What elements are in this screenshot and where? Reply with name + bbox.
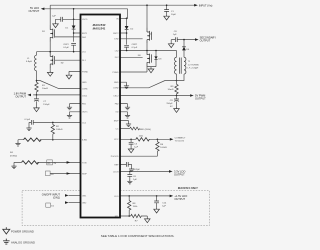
node: LDO/C14 junction bbox=[156, 195, 158, 197]
ground N2 source bbox=[49, 68, 51, 71]
ground C2 bbox=[53, 22, 59, 27]
wire: DH2 gate bbox=[120, 38, 143, 40]
ground C1 bbox=[164, 15, 170, 20]
node: VDD/D2 junction bbox=[126, 18, 128, 20]
svg-text:150µF: 150µF bbox=[43, 104, 50, 106]
node: OUT1 bbox=[36, 94, 38, 96]
wire: CBST2 to LX2 bbox=[126, 47, 128, 50]
ground COUT2 bbox=[174, 107, 180, 112]
svg-text:D2: D2 bbox=[130, 28, 134, 30]
diode D3 (schottky) bbox=[155, 51, 157, 57]
svg-text:10mΩ: 10mΩ bbox=[167, 89, 173, 91]
transistor N4 (low-side, SMPS2) bbox=[146, 50, 148, 52]
wire: LDO3 output row bbox=[120, 170, 169, 172]
wire: 5V LDO output line bbox=[44, 9, 127, 19]
ground C14 bbox=[154, 208, 160, 213]
wire: CBST1 to LX1 bbox=[73, 45, 75, 52]
wire: OUT1 row (CSL1) bbox=[33, 94, 80, 96]
svg-text:R9: R9 bbox=[171, 86, 175, 88]
transformer T1 secondary bbox=[184, 57, 186, 74]
svg-text:0.1µF: 0.1µF bbox=[132, 47, 138, 49]
resistor R7 bbox=[131, 214, 142, 217]
wire: VIN rail bbox=[50, 5, 195, 28]
svg-text:D1: D1 bbox=[65, 28, 69, 30]
svg-text:T1: T1 bbox=[188, 61, 191, 63]
svg-text:CBST2: CBST2 bbox=[132, 44, 138, 46]
capacitor C3 bbox=[130, 139, 132, 142]
ground N4 bbox=[148, 67, 154, 72]
node: BST2 junction bbox=[126, 32, 128, 34]
svg-text:1µF: 1µF bbox=[133, 179, 137, 181]
node: FBL/R8 junction bbox=[128, 215, 130, 217]
diode D2 (boost) bbox=[126, 18, 128, 26]
ground FB2 bbox=[125, 105, 130, 109]
arrow: 5V output bbox=[190, 94, 194, 97]
svg-text:49.9kΩ: 49.9kΩ bbox=[10, 155, 17, 157]
capacitor C6 bbox=[129, 171, 131, 174]
wire: REF pin bbox=[120, 164, 132, 167]
svg-text:100kΩ: 100kΩ bbox=[56, 129, 63, 131]
wire: secondary output row bbox=[171, 40, 195, 47]
svg-text:4V: 4V bbox=[170, 106, 173, 108]
arrow into TON pin bbox=[67, 161, 71, 164]
ground PGND1 bbox=[66, 74, 72, 79]
resistor R10 on CC bbox=[130, 127, 140, 130]
wire: OUT1 pin to ground bbox=[70, 112, 81, 114]
svg-text:N4: N4 bbox=[138, 55, 142, 57]
wire: CSL2 / OUT2 row bbox=[120, 95, 190, 97]
svg-text:C7: C7 bbox=[43, 101, 47, 103]
transformer T1 core bbox=[180, 58, 182, 74]
wire/flag: SKIP row bbox=[50, 173, 81, 175]
svg-text:CSL1: CSL1 bbox=[82, 95, 88, 97]
svg-text:(ON1): (ON1) bbox=[53, 195, 60, 199]
node: VCC junctions bbox=[130, 139, 132, 141]
capacitor CBST1 bbox=[71, 43, 76, 45]
wire: LDO5 pin to bypass cap bbox=[56, 19, 81, 22]
arrow/wire: ON2 bbox=[65, 201, 69, 204]
svg-text:C1: C1 bbox=[171, 11, 175, 13]
MAX1541-only dashed enclosure bbox=[22, 191, 209, 226]
wire: LDO output row bbox=[120, 195, 170, 197]
wire: CSH2 sense (diagonal) bbox=[120, 81, 177, 88]
svg-text:R1: R1 bbox=[42, 85, 46, 87]
svg-text:GND: GND bbox=[114, 82, 119, 84]
wire: GND pin bbox=[120, 82, 127, 84]
wire: CSH1 sense (diagonal) bbox=[37, 81, 81, 89]
transformer T1 primary bbox=[175, 57, 177, 74]
svg-text:ANALOG GROUND: ANALOG GROUND bbox=[11, 241, 35, 245]
capacitor C8 bbox=[175, 37, 177, 42]
svg-text:20Ω: 20Ω bbox=[139, 136, 143, 138]
svg-text:SKIP: SKIP bbox=[82, 173, 87, 175]
svg-text:D3: D3 bbox=[159, 59, 163, 61]
svg-text:INPUT (VIN): INPUT (VIN) bbox=[199, 3, 213, 7]
flag: REF box on TON row bbox=[47, 160, 53, 165]
wire: coil bottoms to sense node bbox=[177, 74, 185, 80]
wire: VCC row bbox=[120, 138, 170, 140]
svg-text:CONNECT: CONNECT bbox=[175, 138, 186, 140]
svg-text:L1: L1 bbox=[27, 58, 30, 60]
node: LDO3/C5 junction bbox=[129, 171, 131, 173]
legend: analog ground bbox=[3, 239, 10, 245]
svg-text:1:2 TURNS: 1:2 TURNS bbox=[188, 64, 200, 66]
capacitor C4 REF bbox=[126, 162, 128, 167]
capacitor C14 bbox=[156, 196, 158, 201]
svg-text:150µF: 150µF bbox=[166, 103, 173, 105]
resistor R6 pullup bbox=[156, 139, 158, 141]
svg-text:1µF: 1µF bbox=[162, 206, 166, 208]
svg-text:REF: REF bbox=[114, 164, 119, 166]
node: ILIM1 junction bbox=[52, 139, 54, 141]
svg-text:C9: C9 bbox=[170, 100, 174, 102]
svg-text:N2: N2 bbox=[61, 62, 65, 64]
svg-text:10µF: 10µF bbox=[171, 14, 177, 16]
svg-text:OUTPUT: OUTPUT bbox=[195, 97, 206, 101]
svg-text:CC: CC bbox=[115, 128, 119, 130]
ground OD bbox=[125, 114, 130, 118]
svg-text:OUTPUT: OUTPUT bbox=[174, 197, 185, 201]
arrow: 5V LDO output bbox=[41, 8, 45, 11]
svg-text:POWER GROUND: POWER GROUND bbox=[11, 230, 34, 234]
ground R7 bbox=[145, 217, 151, 222]
transistor N2 (low-side, SMPS1) bbox=[50, 52, 54, 68]
svg-text:2V: 2V bbox=[54, 163, 57, 165]
svg-text:VCC: VCC bbox=[114, 139, 119, 141]
svg-text:D0: D0 bbox=[51, 174, 55, 176]
ground R4 bbox=[11, 164, 16, 168]
svg-text:10mΩ: 10mΩ bbox=[42, 88, 48, 90]
node: secondary out bbox=[183, 39, 185, 41]
flag/label: ON2 bbox=[46, 203, 51, 207]
wire: LX1 node bbox=[37, 41, 81, 51]
svg-text:LP = 6.8µH: LP = 6.8µH bbox=[188, 68, 199, 70]
ground COUT1 bbox=[34, 106, 40, 111]
wire: DH1 gate bbox=[55, 36, 81, 38]
wire: LX2 row bbox=[120, 44, 177, 58]
svg-text:1µF: 1µF bbox=[52, 15, 56, 17]
wire: CC pin bbox=[120, 128, 130, 130]
svg-text:OUTPUT: OUTPUT bbox=[200, 39, 211, 43]
diode D4 (secondary rectifier) bbox=[183, 50, 185, 57]
diode D1 bbox=[73, 19, 75, 25]
svg-text:BST1: BST1 bbox=[82, 33, 88, 35]
legend: power ground bbox=[3, 227, 10, 234]
svg-text:1µF: 1µF bbox=[173, 34, 177, 36]
capacitor COUT2 bbox=[176, 96, 178, 100]
svg-text:1µF: 1µF bbox=[134, 147, 138, 149]
svg-text:REF (200k): REF (200k) bbox=[140, 129, 151, 131]
ground FB1 bbox=[67, 105, 72, 109]
svg-text:PGND: PGND bbox=[82, 71, 89, 73]
arrow: input terminal bbox=[194, 4, 198, 7]
svg-text:6.8µH: 6.8µH bbox=[26, 61, 32, 63]
wire: N4 source node bbox=[147, 66, 156, 67]
wire: OD pin to ground bbox=[120, 112, 128, 114]
svg-text:C3: C3 bbox=[134, 144, 138, 146]
wire: D2 to BST2 bbox=[120, 30, 127, 45]
resistor R3 bbox=[24, 138, 42, 141]
svg-text:C14: C14 bbox=[162, 203, 167, 205]
ground SKIP2 bbox=[126, 122, 131, 126]
wire: L1 to sense node bbox=[36, 71, 38, 82]
capacitor CBST2 bbox=[124, 45, 129, 47]
svg-text:N1: N1 bbox=[42, 31, 46, 33]
svg-text:BST2: BST2 bbox=[113, 33, 119, 35]
ground C6 bbox=[127, 180, 132, 184]
svg-text:CBST1: CBST1 bbox=[63, 44, 69, 46]
transistor N3 (high-side, SMPS2) bbox=[147, 28, 151, 44]
svg-text:ILIM1: ILIM1 bbox=[82, 140, 88, 142]
svg-text:D4: D4 bbox=[186, 49, 190, 51]
node: LDO5 pin junction bbox=[73, 19, 75, 21]
arrow: 3.3V LDO output bbox=[169, 170, 173, 173]
ground R3 bbox=[15, 142, 20, 146]
svg-text:GND: GND bbox=[82, 82, 87, 84]
svg-text:CSH1: CSH1 bbox=[82, 88, 88, 90]
capacitor C5 row bbox=[29, 122, 81, 126]
node: bias rail tap bbox=[73, 8, 75, 10]
capacitor C1 bbox=[164, 10, 169, 12]
node: VIN/C1 junction bbox=[166, 4, 168, 6]
svg-text:MAX1541 ONLY: MAX1541 ONLY bbox=[178, 186, 198, 190]
ground C4 bbox=[129, 167, 134, 171]
svg-text:R7: R7 bbox=[135, 221, 139, 223]
resistor RCS2 bbox=[176, 81, 178, 85]
ground GND pin bbox=[124, 84, 129, 88]
capacitor C2 1uF bbox=[61, 17, 63, 22]
svg-text:MAX1541: MAX1541 bbox=[93, 27, 106, 31]
inductor L1 bbox=[36, 52, 38, 56]
wire: DL2 gate bbox=[120, 56, 143, 58]
node: sense top bbox=[36, 80, 38, 82]
svg-text:SKIP: SKIP bbox=[114, 120, 119, 122]
node: OUT2 bbox=[176, 95, 178, 97]
svg-text:R2: R2 bbox=[56, 126, 60, 128]
node: LDO/R8 junction bbox=[128, 195, 130, 197]
svg-text:OD: OD bbox=[115, 112, 119, 114]
node: sense2 top bbox=[176, 80, 178, 82]
svg-text:OUT1: OUT1 bbox=[82, 112, 88, 114]
svg-text:D1: D1 bbox=[51, 206, 55, 208]
resistor RCS1 bbox=[36, 81, 38, 83]
svg-text:OUTPUT: OUTPUT bbox=[15, 94, 26, 98]
svg-text:C6: C6 bbox=[133, 176, 137, 178]
svg-text:C8: C8 bbox=[174, 31, 178, 33]
resistor R8 bbox=[128, 196, 130, 201]
wire: PGOOD row bbox=[120, 155, 157, 157]
arrow: 1.8V output bbox=[27, 94, 31, 97]
resistor R2 bbox=[52, 122, 54, 124]
capacitor COUT1 bbox=[36, 95, 38, 99]
node: CC1 junction bbox=[52, 122, 54, 124]
wire: VDD pin row bbox=[120, 17, 127, 19]
arrow: connect to LDO5 bbox=[170, 138, 174, 141]
svg-text:LDO: LDO bbox=[114, 196, 119, 198]
ground C8 bbox=[168, 42, 174, 47]
arrow: 1.5V LDO output bbox=[170, 195, 174, 198]
node: BST1 junction bbox=[73, 32, 75, 34]
svg-text:OUTPUT: OUTPUT bbox=[29, 9, 40, 13]
ground OUT1 pin bbox=[67, 114, 72, 118]
svg-text:LDO5: LDO5 bbox=[82, 19, 88, 21]
svg-text:R6: R6 bbox=[160, 144, 164, 146]
node: LX2 junctions bbox=[126, 50, 128, 52]
arrow/wire: ON1 bbox=[65, 194, 69, 197]
wire: PGND pin bbox=[120, 67, 147, 73]
wire: DL1 gate bbox=[55, 59, 81, 61]
wire: TON row with R4 to ground bbox=[14, 162, 81, 164]
svg-text:CSH2: CSH2 bbox=[113, 88, 119, 90]
ground C3 bbox=[128, 147, 134, 152]
svg-text:0.22µF: 0.22µF bbox=[134, 169, 141, 171]
svg-text:150k: 150k bbox=[133, 206, 139, 208]
wire: FB1 pin to ground bbox=[70, 104, 81, 106]
svg-text:OUTPUT: OUTPUT bbox=[174, 172, 185, 176]
wire: D1 cathode to BST1 bbox=[74, 29, 81, 42]
svg-text:N3: N3 bbox=[149, 34, 153, 36]
svg-text:0.1µF: 0.1µF bbox=[63, 47, 69, 49]
node: VIN/N3 drain junction bbox=[146, 4, 148, 6]
node: LX1 junctions bbox=[49, 51, 51, 53]
svg-text:R5: R5 bbox=[48, 163, 52, 165]
resistor R4 bbox=[22, 161, 39, 164]
wire: ILIM1 row with R3 to ground bbox=[18, 140, 81, 142]
wire: FB2 pin to ground bbox=[120, 104, 128, 106]
svg-text:R4: R4 bbox=[10, 152, 14, 154]
wire: PGND1 pin bbox=[69, 71, 81, 73]
arrow: secondary output bbox=[195, 38, 199, 41]
svg-text:TO LDO5: TO LDO5 bbox=[175, 141, 185, 143]
svg-text:R8: R8 bbox=[133, 203, 137, 205]
svg-text:SEE TABLE 1 FOR COMPONENT SPEC: SEE TABLE 1 FOR COMPONENT SPECIFICATIONS… bbox=[101, 234, 175, 238]
svg-text:LDO3: LDO3 bbox=[113, 171, 119, 173]
wire: FBL row bbox=[120, 216, 147, 217]
svg-text:CSL2: CSL2 bbox=[113, 95, 119, 97]
svg-text:PGND: PGND bbox=[112, 72, 119, 74]
resistor R5 20ohm bbox=[136, 138, 150, 141]
svg-text:100kΩ: 100kΩ bbox=[160, 147, 167, 149]
wire: SKIP2 pin to ground bbox=[120, 121, 129, 123]
ground C5 bbox=[26, 126, 31, 130]
op: IC body MAX1540/MAX1541 bbox=[81, 15, 121, 218]
svg-text:TON: TON bbox=[82, 162, 87, 164]
svg-text:0.1µF: 0.1µF bbox=[25, 119, 31, 121]
transistor N1 (high-side, SMPS1) bbox=[50, 26, 54, 42]
arrow into SKIP pin bbox=[67, 172, 71, 175]
svg-text:PGOOD: PGOOD bbox=[111, 156, 119, 158]
